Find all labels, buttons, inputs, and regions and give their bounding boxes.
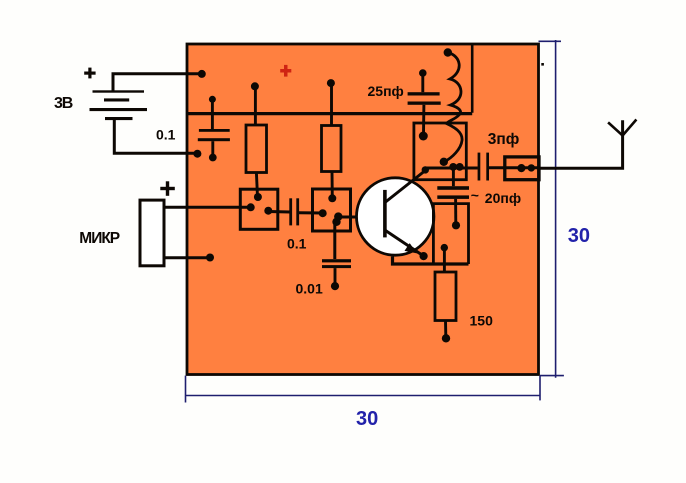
capacitor C2 0.1 plates — [289, 198, 299, 225]
node capacitor C1 top — [209, 96, 216, 103]
pad S2 — [313, 189, 351, 231]
resistor R2 — [322, 126, 342, 172]
node battery minus on board — [193, 150, 201, 158]
svg-text:25пф: 25пф — [368, 83, 404, 99]
resistor R3 bottom lead — [444, 321, 447, 337]
power rail — [188, 112, 472, 115]
pad S5 antenna — [505, 157, 539, 180]
node S5 a — [517, 164, 525, 172]
node battery plus on board — [198, 70, 206, 78]
node C4 bottom — [452, 221, 460, 229]
svg-text:3В: 3В — [54, 95, 73, 112]
capacitor C5 25пф plates — [408, 92, 441, 105]
wire S1 to C2 — [268, 210, 290, 214]
resistor R1 bottom lead — [256, 173, 257, 197]
node R2 top — [327, 79, 335, 87]
node S1 right — [264, 207, 272, 215]
wire rail to board top edge — [471, 44, 474, 113]
capacitor C6 3пф plates — [478, 153, 489, 181]
battery B1 plus mark — [84, 68, 95, 79]
node tank junction b — [456, 163, 464, 171]
pad S1 — [240, 189, 277, 229]
node S2 lower — [332, 218, 340, 226]
node collector junction — [422, 166, 429, 173]
transistor VT1 emitter arrow — [405, 243, 418, 253]
node R3 top — [441, 244, 448, 251]
antenna — [608, 120, 636, 136]
node R1 top — [251, 82, 259, 90]
dimension line bottom 30 — [186, 376, 541, 403]
battery B1 plates — [90, 90, 148, 120]
dimension line right 30 — [539, 40, 564, 378]
node S5 b — [528, 164, 535, 171]
pad S4 — [433, 204, 468, 264]
node S2 top — [328, 194, 336, 202]
capacitor C4 20пф plates — [437, 186, 469, 199]
resistor R3 top lead — [443, 248, 446, 272]
svg-text:~: ~ — [471, 187, 479, 203]
pad S3 — [414, 123, 466, 180]
resistor R2 top lead — [330, 83, 333, 125]
wire C6 to antenna pad — [489, 166, 540, 169]
node capacitor C5 bottom — [419, 132, 428, 141]
wire S2 down to C3 — [333, 222, 336, 259]
wire mic to pad S1 — [164, 206, 251, 209]
wire base S2 to VT1 — [339, 216, 384, 219]
node mic ground — [206, 254, 214, 262]
svg-text:30: 30 — [568, 225, 590, 247]
node S1 left — [247, 203, 255, 211]
node S1 top — [254, 193, 262, 201]
svg-text:0.01: 0.01 — [296, 280, 323, 296]
transistor VT1 base bar — [383, 190, 387, 238]
svg-text:0.1: 0.1 — [287, 236, 307, 252]
transistor VT1 emitter line — [386, 231, 424, 257]
node capacitor C1 bottom — [209, 154, 217, 162]
transistor VT1 collector line — [386, 171, 426, 203]
node tank junction a — [449, 163, 457, 171]
transistor VT1 body — [357, 178, 434, 255]
node capacitor C5 top — [419, 69, 427, 77]
svg-text:20пф: 20пф — [485, 190, 521, 206]
inductor L1 — [445, 53, 463, 162]
resistor R1 — [246, 125, 267, 173]
node C3 bottom — [331, 282, 339, 290]
red plus polarity mark — [280, 65, 291, 77]
PCB board outline — [187, 44, 539, 375]
mic plus mark — [160, 181, 175, 196]
svg-text:0.1: 0.1 — [156, 127, 176, 143]
svg-text:150: 150 — [470, 313, 494, 329]
node S2 centre — [334, 212, 342, 220]
wire C2 to pad S2 — [299, 211, 323, 214]
stray mark on board edge — [541, 63, 544, 66]
resistor R1 top lead — [254, 86, 257, 125]
capacitor C5 bottom lead — [422, 105, 425, 134]
resistor R2 bottom lead — [331, 172, 334, 199]
wire battery plus to board — [113, 74, 202, 91]
capacitor C4 bottom lead — [454, 199, 457, 224]
capacitor C3 0.01 plates — [322, 259, 351, 268]
capacitor C5 25пф top lead — [421, 73, 424, 92]
capacitor C1 0.1 — [198, 99, 230, 157]
wire antenna feed — [539, 120, 623, 168]
node S2 left — [319, 209, 327, 217]
svg-text:30: 30 — [356, 408, 378, 430]
svg-text:МИКР: МИКР — [79, 230, 120, 247]
wire battery minus to board — [114, 120, 197, 154]
capacitor C4 20пф top lead — [452, 167, 455, 187]
microphone МИКР body — [140, 200, 164, 266]
capacitor C3 bottom lead — [334, 268, 337, 284]
wire collector to C6 — [425, 167, 478, 170]
node emitter — [420, 252, 428, 260]
svg-text:3пф: 3пф — [488, 131, 520, 148]
wire mic ground stub — [164, 256, 210, 259]
resistor R3 150 — [435, 272, 456, 321]
node inductor L1 top — [444, 48, 452, 56]
node R3 bottom — [442, 334, 450, 342]
node inductor L1 bottom — [440, 158, 448, 166]
wire emitter ground run — [393, 257, 469, 265]
